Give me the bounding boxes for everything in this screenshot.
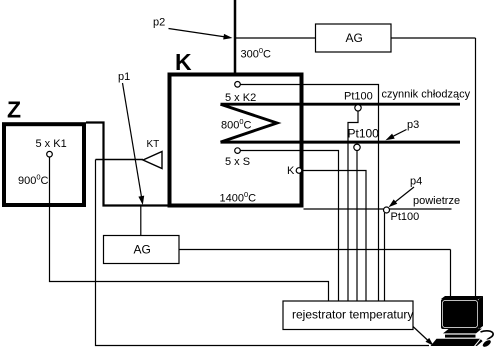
svg-text:czynnik chłodzący: czynnik chłodzący [382, 89, 471, 101]
svg-text:rejestrator temperatury: rejestrator temperatury [292, 308, 413, 322]
svg-text:p3: p3 [407, 119, 419, 131]
svg-text:8000C: 8000C [221, 117, 252, 132]
svg-text:Pt100: Pt100 [344, 91, 373, 103]
svg-text:14000C: 14000C [220, 190, 257, 205]
svg-text:5 x K2: 5 x K2 [225, 92, 256, 104]
svg-text:Pt100: Pt100 [391, 211, 420, 223]
svg-text:Pt100: Pt100 [348, 127, 380, 141]
svg-text:5 x K1: 5 x K1 [36, 138, 67, 150]
svg-text:K: K [175, 49, 192, 75]
svg-text:powietrze: powietrze [413, 195, 460, 207]
svg-text:p4: p4 [410, 176, 422, 188]
svg-text:p2: p2 [153, 17, 165, 29]
svg-text:5 x S: 5 x S [225, 156, 250, 168]
svg-text:p1: p1 [118, 71, 130, 83]
svg-text:9000C: 9000C [18, 173, 49, 188]
svg-text:Z: Z [7, 97, 21, 123]
svg-text:3000C: 3000C [241, 46, 272, 61]
svg-text:KT: KT [147, 139, 160, 150]
svg-text:AG: AG [346, 31, 363, 45]
svg-text:AG: AG [134, 243, 151, 257]
svg-text:K: K [287, 165, 295, 177]
